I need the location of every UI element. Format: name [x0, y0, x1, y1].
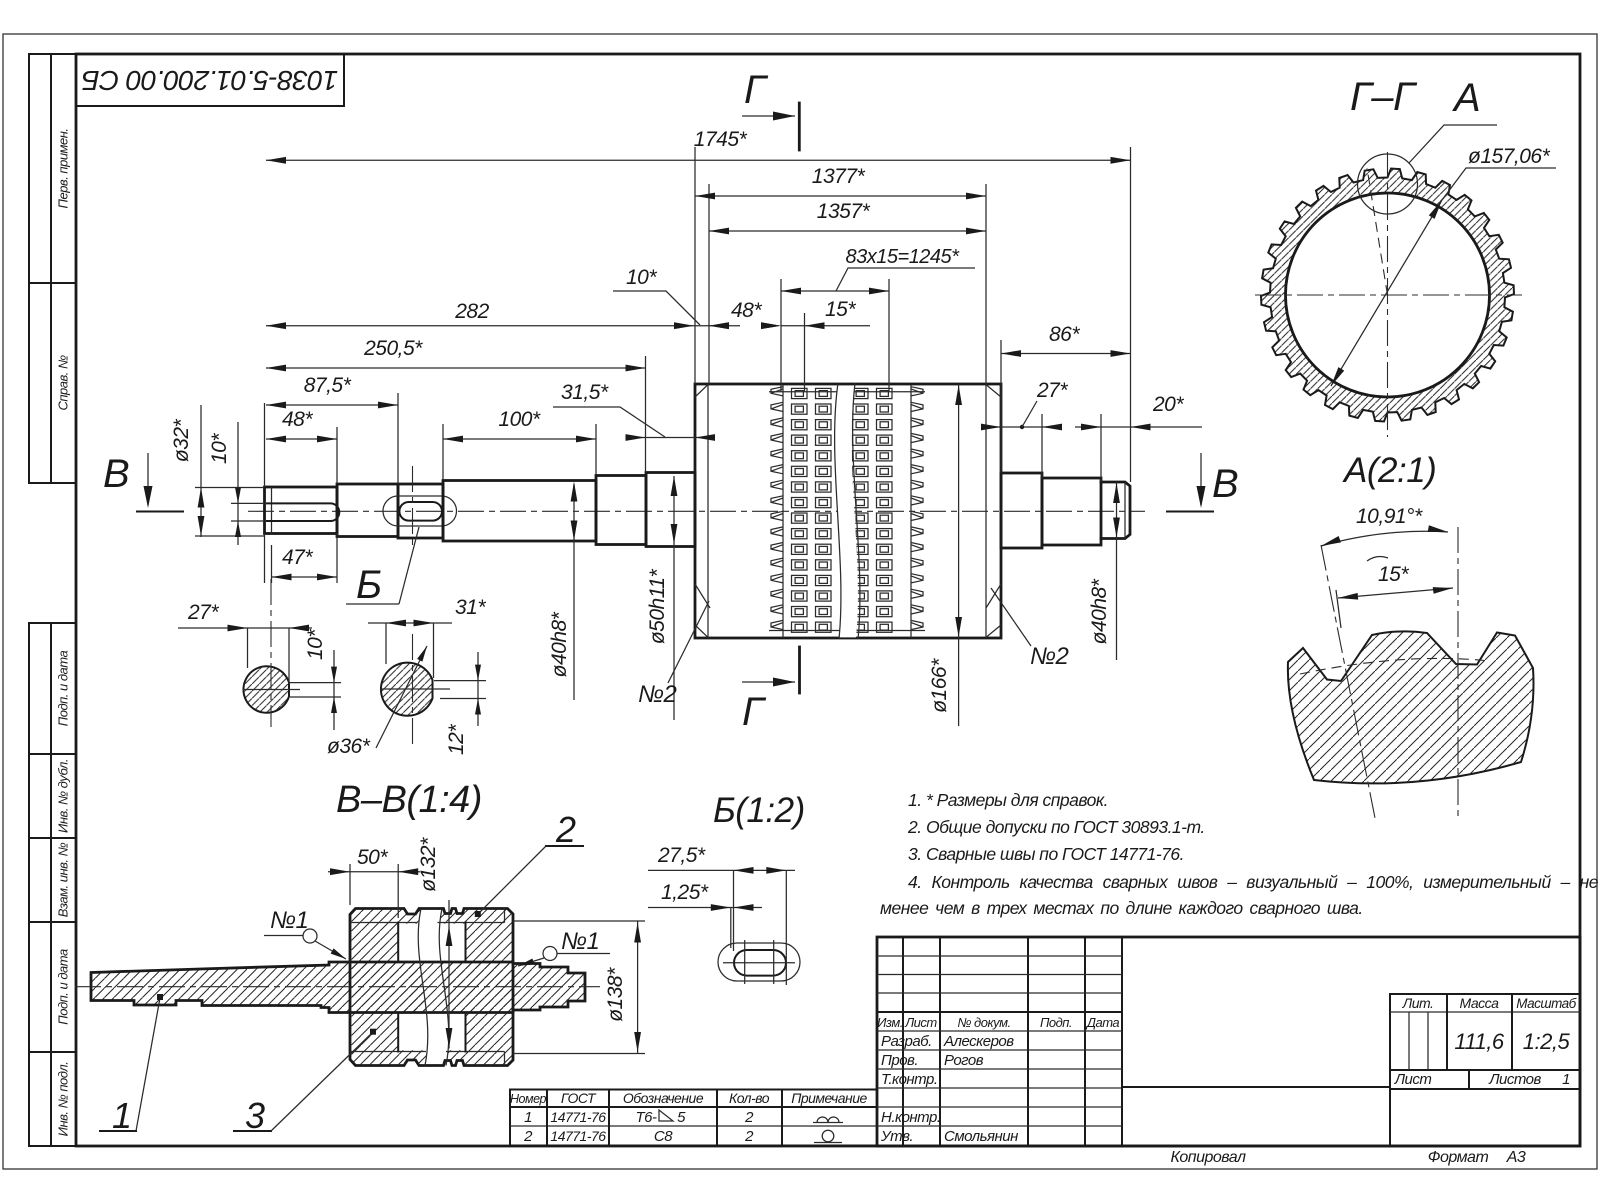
svg-text:А: А [1452, 76, 1480, 120]
svg-text:2: 2 [744, 1109, 754, 1126]
svg-text:Б(1:2): Б(1:2) [713, 791, 805, 830]
svg-text:Г: Г [742, 690, 767, 734]
svg-text:1357*: 1357* [817, 200, 871, 223]
shaft section 4 (d40h8 long) [443, 481, 596, 542]
weld symbol row2 (circle) [822, 1130, 834, 1142]
svg-text:Листов: Листов [1488, 1071, 1541, 1088]
dim d138* [513, 920, 645, 922]
shaft section 8 (d40h8 right) [1042, 478, 1101, 545]
svg-text:20*: 20* [1152, 393, 1184, 416]
svg-text:47*: 47* [282, 546, 313, 569]
svg-text:ø32*: ø32* [170, 418, 193, 462]
section mark B right [1200, 453, 1202, 505]
svg-text:1:2,5: 1:2,5 [1523, 1029, 1571, 1054]
wavy break lines on gear band [835, 383, 841, 639]
svg-text:Инв. № подл.: Инв. № подл. [56, 1062, 71, 1137]
svg-text:1: 1 [112, 1095, 132, 1136]
centerline main view [248, 510, 1145, 512]
keyway slot on section 1 [267, 503, 339, 521]
svg-text:№2: №2 [1030, 643, 1068, 670]
dim 31* [368, 622, 452, 624]
svg-text:1. * Размеры для справок.: 1. * Размеры для справок. [908, 790, 1108, 810]
dim 10* (slot) [290, 682, 341, 684]
A(2:1) dashed root arc [1300, 658, 1490, 674]
svg-text:Изм.: Изм. [877, 1015, 903, 1030]
svg-text:С8: С8 [654, 1128, 673, 1145]
svg-text:2: 2 [555, 809, 576, 850]
svg-text:Утв.: Утв. [880, 1128, 913, 1145]
svg-text:Н.контр.: Н.контр. [881, 1109, 941, 1126]
extension lines main view [200, 405, 202, 537]
dim 12* [434, 680, 486, 682]
svg-text:Номер: Номер [510, 1092, 547, 1106]
svg-text:ø157,06*: ø157,06* [1468, 145, 1551, 168]
svg-text:1,25*: 1,25* [661, 881, 709, 904]
shaft section 7 (d50 right) [1001, 473, 1042, 548]
dim 1357* [709, 230, 986, 232]
dim 31,5* with leader [628, 437, 712, 439]
svg-text:250,5*: 250,5* [363, 337, 423, 360]
shaft section 3 (with pocket B) [398, 484, 443, 538]
shaft end section (20) [1101, 482, 1130, 539]
dim 15* [1338, 588, 1453, 598]
pocket oval outer [383, 496, 457, 526]
svg-text:10*: 10* [304, 629, 327, 660]
svg-text:Примечание: Примечание [791, 1090, 867, 1106]
title block right part lines [1390, 993, 1580, 995]
G-G section gear ring [1261, 169, 1514, 422]
svg-text:А(2:1): А(2:1) [1342, 451, 1436, 490]
detail A circle [1358, 154, 1418, 214]
centerlines right circle [412, 634, 414, 745]
title block frame [877, 937, 1580, 1146]
svg-text:Подп. и дата: Подп. и дата [56, 949, 71, 1025]
hub right rim line [985, 384, 987, 638]
dim 15* gear [781, 325, 870, 327]
svg-text:ø40h8*: ø40h8* [548, 611, 571, 677]
svg-text:10*: 10* [626, 266, 657, 289]
svg-text:Масса: Масса [1460, 995, 1500, 1011]
svg-text:Формат: Формат [1428, 1149, 1489, 1166]
title block horizontals left part [877, 955, 1122, 957]
svg-text:Взам. инв. №: Взам. инв. № [56, 842, 71, 917]
svg-text:ø166*: ø166* [928, 658, 951, 713]
svg-text:Т6-: Т6- [636, 1109, 658, 1126]
svg-text:31*: 31* [455, 596, 486, 619]
svg-text:2. Общие допуски по ГОСТ 3089: 2. Общие допуски по ГОСТ 30893.1-т. [907, 817, 1205, 837]
dim 48* gear [709, 322, 729, 329]
svg-text:282: 282 [454, 300, 489, 323]
leader to label A [1409, 125, 1497, 163]
section mark G top [798, 103, 801, 150]
svg-text:10*: 10* [208, 433, 231, 464]
dim 86* [1001, 353, 1131, 355]
svg-text:Инв. № дубл.: Инв. № дубл. [56, 759, 71, 833]
svg-text:50*: 50* [357, 846, 388, 869]
svg-text:Перв. примен.: Перв. примен. [56, 129, 71, 209]
svg-text:5: 5 [677, 1109, 686, 1126]
B-B hub section hatch [350, 909, 513, 1066]
shaft section 5 [596, 476, 646, 545]
svg-text:100*: 100* [498, 408, 541, 431]
svg-text:87,5*: 87,5* [304, 374, 352, 397]
svg-text:48*: 48* [731, 299, 762, 322]
weld symbol row1 (two arcs) [813, 1117, 843, 1123]
svg-text:ø40h8*: ø40h8* [1088, 578, 1111, 644]
dim 1377* [695, 195, 986, 197]
svg-text:Подп.: Подп. [1040, 1015, 1072, 1030]
svg-text:Копировал: Копировал [1170, 1149, 1246, 1166]
svg-text:Кол-во: Кол-во [729, 1090, 770, 1106]
B-B shaft outline [91, 962, 585, 1013]
svg-text:27*: 27* [187, 601, 219, 624]
re-hatch shaft across break [408, 963, 456, 1011]
svg-text:А3: А3 [1506, 1149, 1526, 1166]
dim 27,5* [733, 870, 735, 951]
shaft section 2 (d36) [337, 484, 398, 537]
svg-text:Г–Г: Г–Г [1350, 75, 1418, 119]
section circle d36 (right) with flat [381, 663, 433, 716]
shaft section 1 (left journal d32 with keyway) [265, 487, 338, 534]
dim 87,5* [266, 404, 398, 406]
title block verticals [902, 937, 904, 1146]
svg-text:ø132*: ø132* [417, 837, 440, 892]
dim 250,5* [266, 367, 646, 369]
shaft section 6 (d50h11) [646, 473, 695, 547]
break white zone [418, 910, 449, 1065]
svg-text:Лист: Лист [1394, 1071, 1432, 1088]
svg-text:Масштаб: Масштаб [1516, 996, 1576, 1011]
svg-text:Лист: Лист [904, 1015, 937, 1030]
svg-text:№1: №1 [561, 928, 599, 955]
hub left rim line [707, 384, 709, 638]
svg-text:1: 1 [524, 1109, 532, 1126]
svg-text:№1: №1 [270, 907, 308, 934]
svg-text:1745*: 1745* [694, 128, 748, 151]
dim 50* [349, 864, 351, 905]
svg-text:3: 3 [245, 1095, 265, 1136]
hub corner chamfers [695, 385, 1001, 638]
A(2:1) dash-dot radials [1321, 545, 1375, 818]
hub web recess white [398, 924, 465, 961]
B-B wavy break lines [418, 909, 428, 1066]
svg-text:31,5*: 31,5* [561, 381, 609, 404]
section mark B left [147, 453, 149, 505]
A(2:1) tooth chunk [1288, 631, 1534, 783]
svg-text:2: 2 [744, 1128, 754, 1145]
dim 10* keyway vertical [231, 502, 263, 504]
gear hub outer [695, 384, 1001, 638]
svg-text:В: В [103, 452, 129, 496]
dim 1,25* [730, 908, 732, 949]
svg-text:27*: 27* [1036, 379, 1068, 402]
weld bevel left (N2) [695, 584, 710, 608]
svg-text:менее чем в трех местах по дли: менее чем в трех местах по длине каждого… [880, 898, 1363, 918]
B detail inner slot [734, 950, 786, 976]
svg-text:Т.контр.: Т.контр. [881, 1071, 938, 1088]
hub band lines [350, 922, 505, 924]
svg-text:№ докум.: № докум. [957, 1015, 1010, 1030]
dim 27* with leader dot [985, 426, 1058, 428]
svg-text:В–В(1:4): В–В(1:4) [336, 779, 482, 821]
centerlines left circle [270, 579, 272, 727]
vertical centerline of pocket [412, 466, 414, 548]
hub lip verticals [504, 909, 506, 923]
left sidebar attachment boxes [29, 54, 76, 283]
dim 48* left [266, 438, 337, 440]
svg-text:14771-76: 14771-76 [550, 1128, 606, 1144]
svg-text:1038-5.01.200.00 СБ: 1038-5.01.200.00 СБ [82, 65, 339, 96]
dim 10,91 [1321, 531, 1448, 546]
svg-text:2: 2 [523, 1128, 533, 1145]
weld table [510, 1090, 877, 1146]
svg-text:Пров.: Пров. [881, 1052, 918, 1069]
B-B shaft section hatch [91, 962, 585, 1013]
svg-text:111,6: 111,6 [1454, 1029, 1505, 1054]
G-G centerlines [1255, 294, 1522, 296]
dim 100* [443, 438, 596, 440]
svg-text:Рогов: Рогов [944, 1052, 984, 1069]
svg-text:№2: №2 [638, 681, 676, 708]
svg-text:Алескеров: Алескеров [943, 1033, 1014, 1050]
dim 1745* [266, 159, 1131, 161]
top stamp box with rotated designation [76, 54, 344, 106]
dim 282 chain [266, 325, 740, 327]
B detail tick lines [744, 940, 746, 984]
svg-text:12*: 12* [445, 724, 468, 755]
dim d40h8* right [1116, 482, 1118, 660]
dim d166* [958, 384, 960, 726]
svg-text:Обозначение: Обозначение [623, 1090, 704, 1106]
svg-text:Смольянин: Смольянин [944, 1128, 1018, 1145]
dim 27* [178, 627, 312, 629]
B-B centerline [75, 986, 600, 988]
svg-text:15*: 15* [1378, 563, 1409, 586]
weld bevel right (N2) [986, 584, 1001, 608]
svg-text:Разраб.: Разраб. [881, 1033, 932, 1050]
svg-text:14771-76: 14771-76 [550, 1109, 606, 1125]
svg-text:3. Сварные швы по ГОСТ 14771-: 3. Сварные швы по ГОСТ 14771-76. [908, 844, 1184, 864]
dim d157,06* [1331, 200, 1442, 386]
svg-text:48*: 48* [282, 408, 313, 431]
B-B hub outline [350, 909, 513, 1066]
dim d32* vertical left [195, 487, 264, 489]
dim d40h8* left [573, 484, 575, 700]
svg-text:Б: Б [356, 563, 382, 607]
svg-text:В: В [1212, 462, 1238, 506]
svg-text:4. Контроль качества сварны: 4. Контроль качества сварных швов – визу… [908, 872, 1599, 892]
gear teeth band [771, 387, 783, 630]
svg-text:15*: 15* [825, 298, 856, 321]
dim 83x15=1245* [781, 290, 889, 292]
svg-text:1: 1 [1562, 1071, 1570, 1088]
svg-text:Подп. и дата: Подп. и дата [56, 651, 71, 727]
svg-text:ø36*: ø36* [327, 735, 371, 758]
lit sub cells [1408, 1012, 1410, 1070]
hub recess verticals [397, 923, 399, 963]
dim 10* arrows (chain) [709, 322, 729, 329]
dim d132* [448, 900, 450, 1049]
dim 20* [1075, 426, 1202, 428]
dim d50h11* [673, 476, 675, 720]
svg-text:27,5*: 27,5* [657, 844, 706, 867]
section mark G bottom [798, 647, 801, 693]
svg-text:ø50h11*: ø50h11* [646, 569, 669, 645]
svg-text:ø138*: ø138* [604, 967, 627, 1022]
svg-text:10,91°*: 10,91°* [1356, 505, 1423, 528]
pocket oval inner slot [399, 502, 442, 521]
svg-text:Дата: Дата [1085, 1015, 1120, 1030]
B detail outer stadium [718, 943, 800, 981]
svg-text:ГОСТ: ГОСТ [561, 1090, 597, 1106]
section circle of keyed journal (left) [243, 666, 289, 713]
dashed radial to detail A [1367, 168, 1388, 295]
svg-text:Лит.: Лит. [1402, 995, 1434, 1011]
svg-text:Справ. №: Справ. № [56, 355, 71, 411]
svg-text:86*: 86* [1049, 323, 1080, 346]
svg-text:Г: Г [744, 68, 769, 112]
svg-text:1377*: 1377* [812, 165, 866, 188]
dim 47* [272, 576, 338, 578]
svg-text:83х15=1245*: 83х15=1245* [846, 246, 961, 268]
